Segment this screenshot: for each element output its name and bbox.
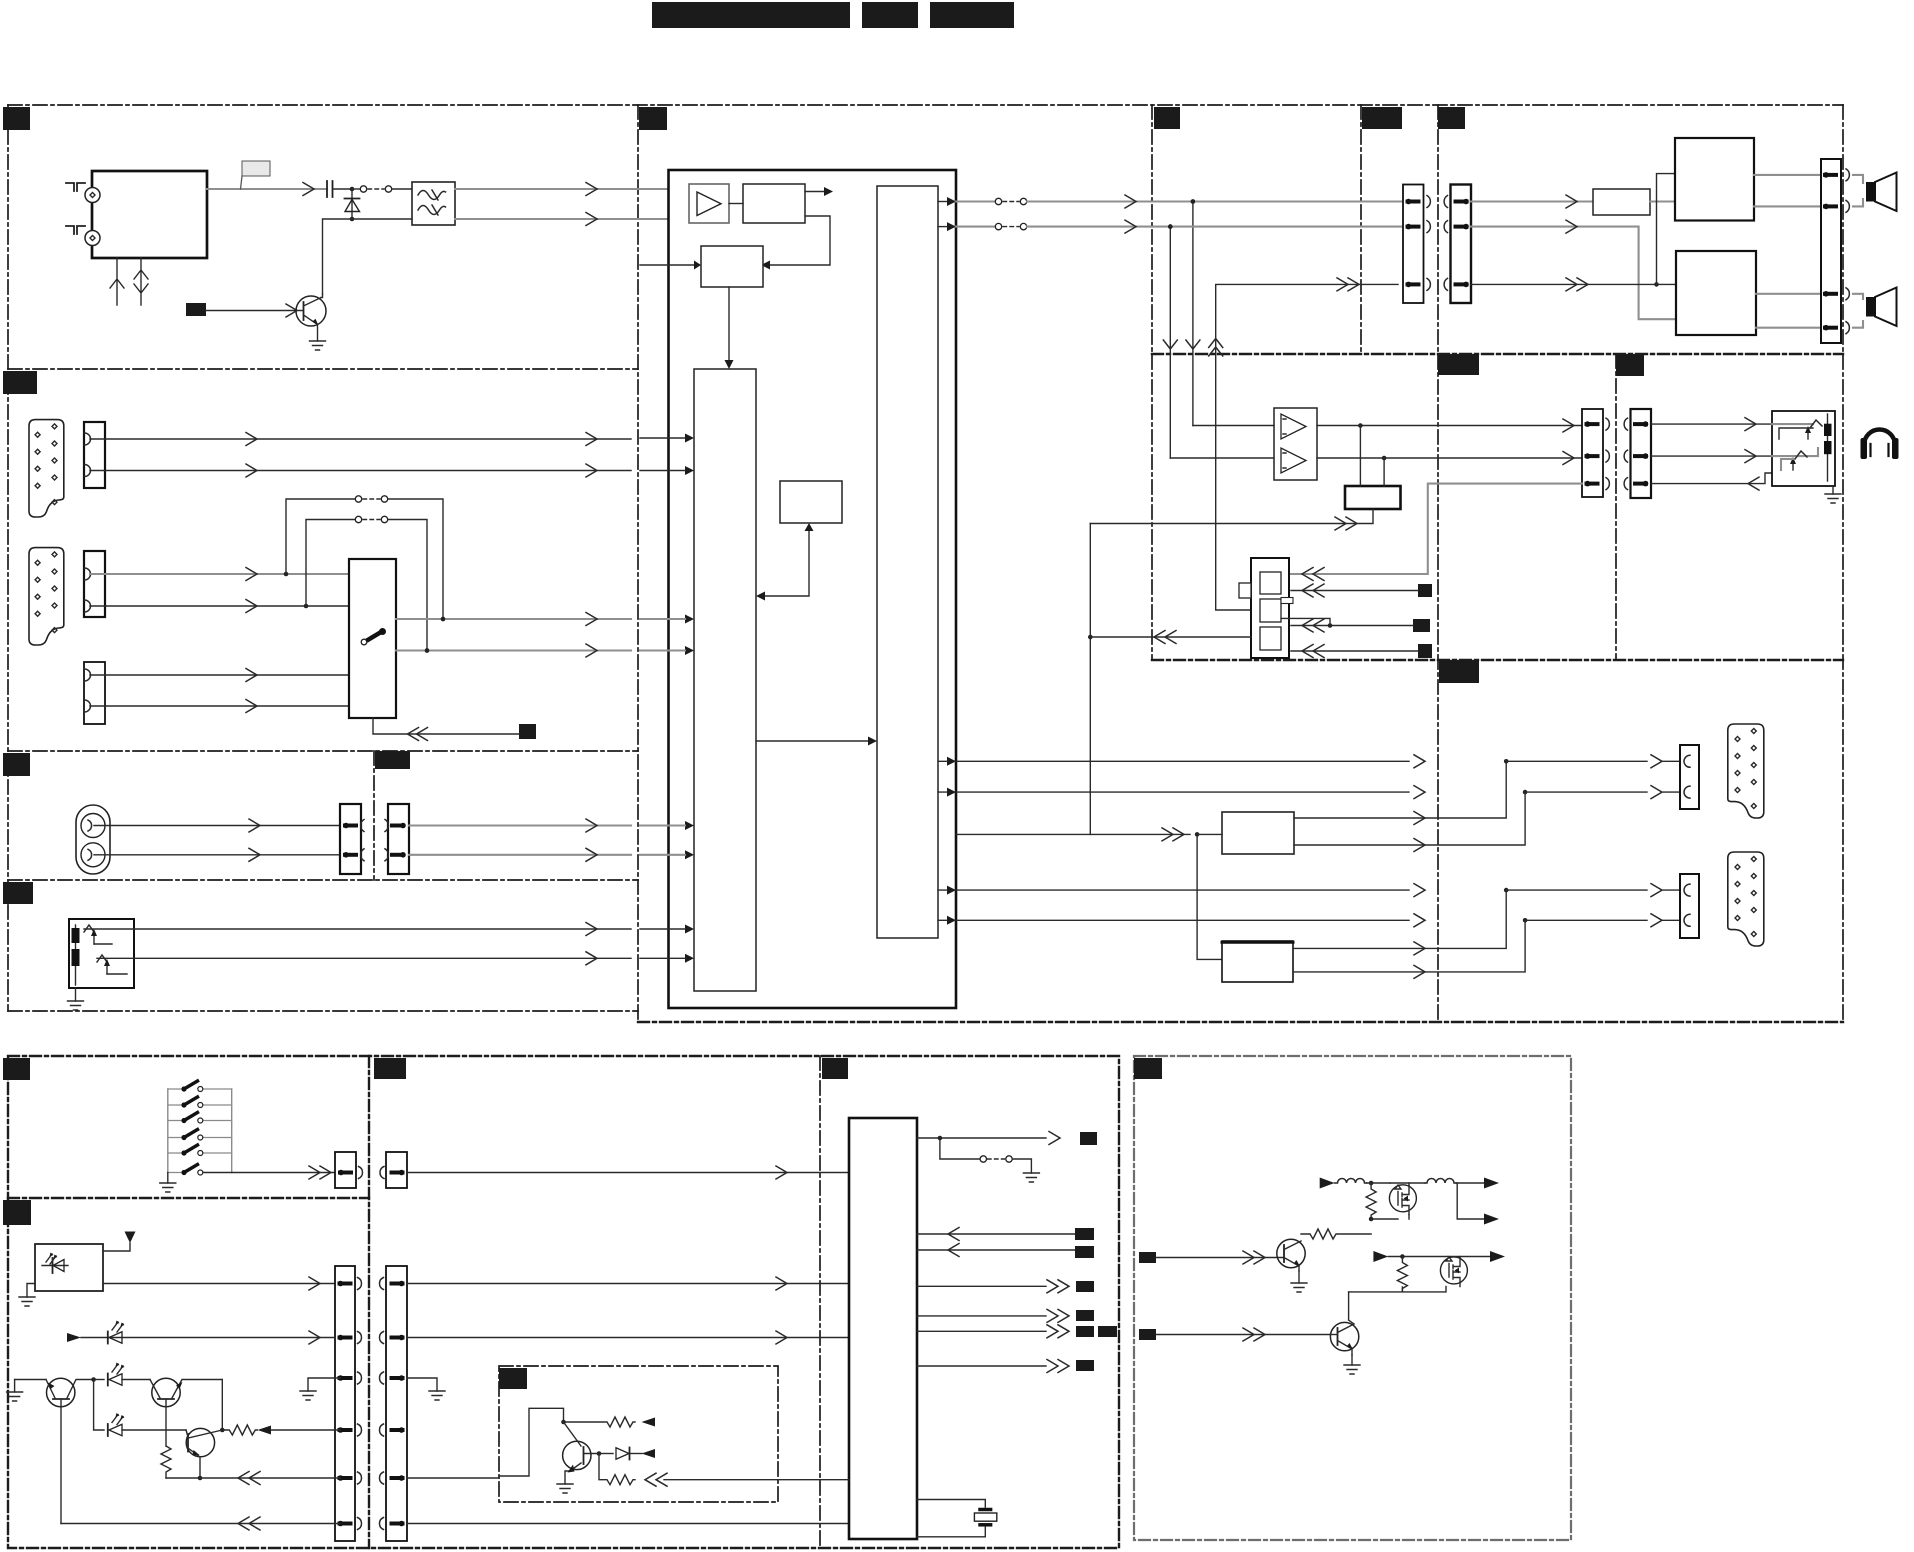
wire: Q20 collector to resistor R21 bbox=[1301, 1229, 1371, 1239]
wire: R channel to PA2 bbox=[1471, 220, 1676, 319]
wire: r6 under standby box bbox=[407, 1523, 849, 1525]
section border: horizontal y=751 bbox=[8, 750, 638, 752]
section border: horizontal y=369 tuner/input bbox=[8, 368, 638, 370]
wire: phono L row into switch bbox=[90, 669, 349, 682]
arrowhead: tuner L into selector bbox=[640, 434, 694, 443]
mic jack block bbox=[69, 919, 134, 988]
transistor Q21 bbox=[1330, 1292, 1358, 1355]
jumper J1 open points bbox=[352, 186, 412, 192]
wire: mosfet drain-source path bbox=[1371, 1183, 1409, 1219]
label: hp detect net 1 bbox=[1418, 584, 1432, 597]
label: control net 3a bbox=[1076, 1326, 1094, 1337]
wire: mute row r5 bbox=[200, 1472, 340, 1485]
arrow on filter upper wire bbox=[586, 183, 597, 196]
transistor Q10 bbox=[46, 1378, 94, 1523]
ground: Q20 emitter bbox=[1291, 1271, 1307, 1292]
capacitor C1 bbox=[327, 181, 352, 197]
title redaction bar 1 bbox=[652, 2, 850, 28]
node: LED branch bbox=[91, 1377, 96, 1382]
node: gate node 2 bbox=[1400, 1254, 1405, 1259]
wire: standby feedback path bbox=[499, 1408, 564, 1476]
arrowhead: mic 2 into selector bbox=[640, 954, 694, 963]
inductor L20 bbox=[1335, 1179, 1367, 1184]
key matrix bus bbox=[168, 1089, 232, 1173]
section border: bottom inner vertical x=820 bbox=[819, 1056, 821, 1548]
L filter box bbox=[1593, 189, 1650, 215]
label: power drive in 2 bbox=[1139, 1329, 1156, 1340]
wire: switch out row 1 bbox=[396, 613, 631, 626]
wire: status in 2 bbox=[917, 1244, 1075, 1257]
key connector CN30 bbox=[335, 1152, 362, 1188]
label: power drive in 1 bbox=[1139, 1252, 1156, 1263]
headphone jack block bbox=[1772, 411, 1835, 486]
wire: node L to mute box bbox=[1359, 426, 1361, 487]
wire: buck out bbox=[1456, 1178, 1499, 1189]
LED D11 bbox=[94, 1363, 150, 1386]
wire: drive 2 to Q21 bbox=[1156, 1328, 1330, 1341]
section label: amp board bbox=[1154, 107, 1180, 129]
microcontroller block bbox=[849, 1118, 917, 1539]
wire: switch out row 2 bbox=[396, 644, 631, 657]
wire: aux L to main bbox=[409, 819, 631, 832]
label: control net 2 bbox=[1076, 1310, 1094, 1321]
wire: buck out branch bbox=[1457, 1183, 1499, 1225]
wire: conn to L filter bbox=[1471, 195, 1593, 208]
antenna terminal mark 1 bbox=[66, 183, 85, 191]
wire: sub out 1 bbox=[938, 884, 1425, 897]
tuner block down-leads arrow 1 bbox=[110, 258, 124, 305]
wire: switch control bbox=[373, 718, 519, 741]
main connector column CN33 bbox=[379, 1266, 407, 1541]
node: hp detect L bbox=[1358, 423, 1363, 428]
section label: display sub bbox=[3, 1200, 31, 1225]
system control box bbox=[780, 481, 842, 523]
transistor Q1 bbox=[296, 294, 326, 341]
label: control net 3b bbox=[1098, 1326, 1117, 1337]
node: LED2 drive bbox=[220, 1428, 225, 1433]
headphone op-amp block bbox=[1274, 408, 1317, 480]
LED D12 bbox=[94, 1380, 186, 1437]
wire: LED row to micro bbox=[407, 1331, 849, 1344]
section border: vertical x=1152 bbox=[1151, 105, 1153, 660]
node overlay: speaker R bbox=[1168, 224, 1173, 229]
wire: CN2 pin1 row bbox=[90, 433, 631, 446]
wire: control out 1 bbox=[917, 1280, 1069, 1293]
arrowhead: aux sw R into selector bbox=[640, 646, 694, 655]
antenna jack AM bbox=[85, 231, 100, 246]
section border: bottom inner vertical x=369 bbox=[368, 1056, 370, 1548]
wire: speaker row L bbox=[1193, 200, 1403, 202]
title redaction bar 3 bbox=[930, 2, 1014, 28]
dsub connector icon CN1 bbox=[29, 420, 64, 517]
section label: bottom key board bbox=[3, 1058, 30, 1080]
jumper: power option bbox=[940, 1138, 1032, 1173]
wire: drive 1 to Q20 bbox=[1156, 1251, 1283, 1264]
input selector tall block bbox=[694, 369, 756, 991]
diode D13 bbox=[599, 1448, 655, 1460]
node: hp detect R bbox=[1382, 456, 1387, 461]
section label: speakers bbox=[1438, 107, 1465, 129]
wire: filter to PA1 bbox=[1650, 200, 1675, 202]
wire: aux R to main bbox=[409, 848, 631, 861]
wire: aux jack L row bbox=[94, 819, 341, 832]
arrow on filter lower wire bbox=[586, 213, 597, 226]
section label: bottom micro board bbox=[822, 1058, 848, 1079]
wire: op-amp in L bbox=[1193, 425, 1274, 427]
IR receiver block bbox=[35, 1244, 103, 1291]
power rail row 2 marker bbox=[1373, 1251, 1448, 1262]
wire: mute out to driver bbox=[956, 828, 1190, 841]
ground: power option bbox=[1023, 1173, 1039, 1182]
key switch 1 bbox=[168, 1081, 232, 1092]
dsub icon: rec out bbox=[1728, 724, 1764, 818]
wire: hp R to jack bbox=[1651, 450, 1772, 463]
label: tuner control net bbox=[186, 303, 206, 316]
wire: control out 2 bbox=[917, 1309, 1069, 1322]
inductor L21 bbox=[1409, 1179, 1456, 1184]
section label: aux in bbox=[3, 753, 30, 776]
standby transistor Q13 bbox=[563, 1422, 599, 1484]
wire: detect bus down bbox=[1089, 524, 1091, 835]
arrowhead into amp upper bbox=[680, 185, 689, 194]
line level box 1 bbox=[1222, 812, 1294, 854]
resistor R11 bbox=[222, 1425, 340, 1435]
main connector column CN32 bbox=[335, 1266, 362, 1541]
ground: Q21 emitter bbox=[1344, 1355, 1360, 1374]
section border: horizontal y=1011 bottom of left column bbox=[8, 1010, 638, 1012]
section border: inner vertical x=1616 bbox=[1615, 354, 1617, 660]
section border: vertical x=638 bbox=[637, 105, 639, 1022]
wire: op-amp in R bbox=[1170, 457, 1274, 459]
title redaction bar 2 bbox=[862, 2, 918, 28]
node overlay: switch out 2 bbox=[425, 648, 430, 653]
wire: base drive bbox=[206, 304, 302, 317]
LED D10 bbox=[108, 1321, 125, 1344]
resistor R13 bbox=[599, 1454, 635, 1485]
node: cap/diode junction bbox=[350, 187, 355, 192]
key switch 2 bbox=[168, 1097, 232, 1108]
vertical from Q11 collector bbox=[221, 1380, 223, 1431]
wire: IR out bbox=[103, 1277, 335, 1290]
power amp PA2 bbox=[1676, 251, 1756, 335]
key switch 5 bbox=[168, 1145, 232, 1156]
wire: aux jack R row bbox=[94, 848, 341, 861]
antenna terminal mark 2 bbox=[66, 226, 85, 234]
node: buck input bbox=[1367, 1181, 1391, 1186]
wire: diode to transistor collector bbox=[323, 219, 413, 294]
section label: external input bbox=[3, 371, 37, 394]
wire: mic row 1 to main bbox=[134, 923, 631, 936]
transistor Q20 bbox=[1277, 1239, 1305, 1271]
jack detect block bbox=[1239, 558, 1293, 658]
wire: control out 4 bbox=[917, 1360, 1069, 1373]
connector CN5 2pin bbox=[84, 662, 105, 724]
wire: PA2 out 1 bbox=[1756, 293, 1821, 295]
MOSFET M21 bbox=[1440, 1257, 1467, 1287]
section label: headphone board bbox=[1438, 354, 1479, 375]
dsub connector icon CN3 bbox=[29, 548, 64, 645]
resistor R22 vertical bbox=[1397, 1257, 1407, 1292]
ground: Q1 emitter bbox=[310, 341, 326, 350]
wire: IF feedback to PLL bbox=[761, 216, 830, 270]
dsub icon: sub out bbox=[1728, 852, 1764, 946]
sub out connector CN26 bbox=[1680, 874, 1699, 938]
node: selector junction bbox=[1088, 635, 1093, 640]
section border: bottom inner horizontal y=1198 bbox=[8, 1197, 369, 1199]
wire: IF out arrow bbox=[805, 187, 833, 196]
key switch 6 bbox=[168, 1165, 335, 1180]
tuner block down-leads arrow 2 bbox=[134, 258, 148, 305]
tuner block bbox=[92, 171, 207, 258]
ground stub left column bbox=[300, 1378, 340, 1400]
wire: Q11 bias to node bbox=[166, 1477, 200, 1479]
section border: left vertical x=8 bbox=[7, 105, 9, 1011]
main IC outer block bbox=[669, 170, 957, 1008]
volume/DSP tall block bbox=[877, 186, 938, 938]
ground stub right column bbox=[407, 1378, 445, 1400]
sub out node 2 bbox=[1523, 914, 1680, 927]
wire: sub out 2 bbox=[938, 914, 1425, 927]
node: speaker L branch bbox=[1191, 199, 1196, 204]
wire: PA1 out 1 bbox=[1754, 174, 1821, 176]
label: switch control net bbox=[519, 724, 536, 739]
wire: box2 out 1 riser bbox=[1293, 890, 1506, 948]
wire: hp return gray bbox=[1291, 484, 1582, 581]
node: jumper1 to out row bbox=[441, 617, 446, 622]
transistor Q11 bbox=[150, 1378, 222, 1446]
node: Q13 base bbox=[597, 1451, 602, 1456]
wire: PA1 out 2 bbox=[1754, 205, 1821, 207]
power input marker 1 bbox=[1320, 1178, 1335, 1189]
wire: mic row 2 to main bbox=[134, 952, 631, 965]
resistor R12 bbox=[564, 1417, 656, 1427]
connector CN2 2pin bbox=[84, 422, 105, 488]
section label: standby sub bbox=[499, 1368, 527, 1389]
node: K collector tap bbox=[561, 1420, 566, 1425]
wire: control out 3 bbox=[917, 1325, 1069, 1338]
section box: inner standby sub-box bbox=[499, 1366, 778, 1502]
wire: detect net 1 bbox=[1291, 584, 1418, 597]
mute control box bbox=[1345, 486, 1401, 509]
RCA jack pair AUX bbox=[76, 805, 110, 874]
IF box bbox=[743, 184, 805, 223]
node: mute bus tap bbox=[1195, 832, 1222, 837]
wire: detect to logic bbox=[1090, 631, 1251, 644]
LED power marker bbox=[67, 1331, 335, 1344]
node: speaker R branch bbox=[1168, 224, 1173, 229]
connector CN20 bbox=[1403, 185, 1430, 304]
wire: amp to IF bbox=[729, 203, 743, 205]
section border: horizontal y=354 speaker section bottom bbox=[1152, 353, 1843, 355]
MOSFET M20 bbox=[1389, 1185, 1416, 1215]
section label: mic jack bbox=[3, 882, 33, 904]
wire: filter out upper bbox=[455, 188, 684, 190]
section label: main board bbox=[639, 107, 667, 130]
arrowhead: mic 1 into selector bbox=[640, 925, 694, 934]
headphone connector CN24 bbox=[1624, 409, 1651, 498]
wire: key row to micro bbox=[407, 1166, 849, 1179]
connector CN6 bbox=[340, 804, 364, 874]
FM front-end amp box bbox=[689, 184, 729, 223]
wire: detect net 2 bbox=[1281, 618, 1413, 632]
arrowhead: aux jack L into selector bbox=[640, 821, 694, 830]
headphone icon bbox=[1861, 430, 1899, 460]
ground: key matrix bbox=[160, 1173, 176, 1193]
speaker connector CN22 bbox=[1821, 159, 1849, 343]
section box: bottom-left panel bbox=[8, 1056, 1119, 1548]
node: jumper2 to out row bbox=[425, 648, 430, 653]
filter FL1 bbox=[412, 182, 455, 225]
section border: inner vertical x=374 aux section bbox=[373, 751, 375, 880]
speaker icon right bbox=[1853, 288, 1897, 328]
section border: vertical x=1438 bbox=[1437, 105, 1439, 1022]
flag marker bbox=[241, 161, 271, 189]
connector CN7 bbox=[385, 804, 409, 874]
key switch 3 bbox=[168, 1113, 232, 1124]
wire: selector to DSP bbox=[756, 737, 877, 746]
wire: DSP out R to border bbox=[938, 220, 1171, 233]
section box: bottom-right power panel bbox=[1134, 1056, 1571, 1540]
section label: rear out bbox=[1439, 660, 1479, 683]
section border: top horizontal y=105 bbox=[8, 104, 1843, 106]
wire: rec out 1 bbox=[938, 755, 1425, 768]
wire: tune input to PLL bbox=[640, 261, 701, 270]
ground: IR receiver bbox=[19, 1284, 35, 1307]
section border: horizontal y=660 headphone section bottom bbox=[1152, 659, 1843, 661]
switch block SW1 bbox=[349, 559, 396, 718]
label: status net 1 bbox=[1075, 1228, 1094, 1240]
section label: speaker relay bbox=[1362, 107, 1402, 129]
section border: horizontal y=1022 center bottom bbox=[638, 1021, 1843, 1023]
jumper loop row 1 bbox=[286, 496, 443, 617]
arrowhead: tuner R into selector bbox=[640, 466, 694, 475]
wire: hp return from jack bbox=[1651, 473, 1772, 490]
resistor R10 bbox=[161, 1446, 171, 1478]
wire: detect net 3 bbox=[1291, 645, 1418, 658]
wire: box1 out 2 riser bbox=[1294, 792, 1525, 851]
wire: r5 to standby box bbox=[407, 1477, 499, 1479]
wire: box2 out 2 riser bbox=[1293, 920, 1525, 978]
jumper loop row 2 bbox=[306, 516, 427, 648]
headphone connector CN23 bbox=[1582, 409, 1609, 497]
wire: micro power out bbox=[917, 1132, 1060, 1145]
section label: power board bbox=[1134, 1058, 1162, 1079]
diode D1 bbox=[345, 191, 360, 219]
wire: CN2 pin2 row bbox=[90, 464, 631, 477]
section border: horizontal y=880 bbox=[8, 879, 638, 881]
wire: Q21 base resistor jog bbox=[1330, 1334, 1338, 1336]
wire: M21 drain to rail bbox=[1448, 1251, 1505, 1262]
resistor R20 vertical bbox=[1366, 1183, 1376, 1219]
label: status net 2 bbox=[1075, 1246, 1094, 1258]
section border: right vertical x=1843 bbox=[1842, 105, 1844, 1022]
label: hp detect net 3 bbox=[1418, 644, 1432, 658]
wire: stby row r6 bbox=[61, 1517, 340, 1530]
crystal X1 bbox=[917, 1500, 997, 1537]
wire: DSP out L to border bbox=[938, 195, 1193, 208]
connector CN21 bbox=[1444, 185, 1471, 304]
wire: aux L row into switch bbox=[90, 568, 349, 581]
wire: Q21 collector to gate node 2 bbox=[1349, 1287, 1446, 1292]
power amp PA1 bbox=[1675, 138, 1754, 221]
line level box 2 bbox=[1222, 941, 1293, 982]
key connector CN31 bbox=[380, 1152, 407, 1188]
ground: headphone jack bbox=[1825, 486, 1841, 503]
node: aux R jumper tap bbox=[304, 604, 309, 609]
node: power switch tap bbox=[938, 1136, 943, 1141]
arrow on tuner wire bbox=[303, 183, 314, 196]
node overlay: switch out 1 bbox=[441, 617, 446, 622]
switch lever symbol bbox=[361, 628, 386, 645]
section label: headphone jack bbox=[1616, 354, 1644, 376]
speaker icon left bbox=[1853, 173, 1897, 212]
label: control net 4 bbox=[1076, 1360, 1094, 1371]
wire: mute box to detect bus bbox=[1090, 509, 1373, 530]
PLL box bbox=[701, 246, 763, 287]
wire: hp L to jack bbox=[1651, 418, 1772, 431]
wire: box1 out 1 riser bbox=[1294, 761, 1506, 818]
key switch 4 bbox=[168, 1130, 232, 1141]
arrowhead: aux sw L into selector bbox=[640, 615, 694, 624]
wire: speaker feed to PAs bbox=[1471, 174, 1676, 291]
section label: bottom connector board bbox=[374, 1058, 406, 1079]
wire: PLL to selector bbox=[725, 287, 734, 369]
sub out node 1 bbox=[1504, 884, 1680, 897]
wire: L drop to headphone amp bbox=[1186, 202, 1200, 426]
arrowhead: aux jack R into selector bbox=[640, 850, 694, 859]
wire: control L with arrows bbox=[756, 523, 814, 601]
wire: speaker feed riser bbox=[1209, 278, 1398, 610]
wire: speaker row R bbox=[1170, 226, 1403, 228]
node overlay: speaker L bbox=[1191, 199, 1196, 204]
label: hp detect net 2 bbox=[1413, 619, 1430, 632]
antenna jack FM bbox=[85, 188, 100, 203]
transistor Q12 bbox=[186, 1428, 222, 1478]
display drive line A bbox=[7, 1380, 46, 1402]
wire: status in 1 bbox=[917, 1228, 1075, 1241]
wire: tuner output bbox=[207, 188, 327, 190]
node: Q12 emitter row bbox=[198, 1476, 203, 1481]
ground: Q13 emitter bbox=[557, 1484, 573, 1493]
node: aux L jumper tap bbox=[284, 572, 289, 577]
arrowhead into amp lower bbox=[680, 215, 689, 224]
wire: R drop to headphone amp bbox=[1163, 227, 1177, 458]
section label: aux jumper bbox=[375, 751, 410, 769]
wire: headphone R row bbox=[1317, 452, 1582, 465]
rec out node 2 bbox=[1523, 786, 1680, 799]
wire: filter out lower bbox=[455, 218, 684, 220]
wire: rec out 2 bbox=[938, 786, 1425, 799]
label: power net bbox=[1080, 1132, 1097, 1145]
wire: mute bus to box2 bbox=[1197, 834, 1222, 959]
rec out node 1 bbox=[1504, 755, 1680, 768]
ground: mic jack bbox=[68, 988, 84, 1010]
node: diode lower junction bbox=[350, 217, 355, 222]
rec out connector CN25 bbox=[1680, 745, 1699, 809]
wire: PA2 out 2 bbox=[1756, 327, 1821, 329]
section border: inner vertical x=1361 bbox=[1360, 105, 1362, 354]
wire: headphone L row bbox=[1317, 419, 1582, 432]
IR antenna mark bbox=[103, 1232, 136, 1252]
node: gate node bbox=[1369, 1217, 1374, 1222]
wire: aux R row into switch bbox=[90, 600, 349, 613]
section label: tuner bbox=[3, 107, 30, 130]
label: control net 1 bbox=[1076, 1281, 1094, 1292]
wire: phono R row into switch bbox=[90, 700, 349, 713]
wire: IR row to micro bbox=[407, 1277, 849, 1290]
wire: node R to mute box bbox=[1383, 458, 1385, 486]
wire: standby drive from micro bbox=[645, 1473, 849, 1486]
